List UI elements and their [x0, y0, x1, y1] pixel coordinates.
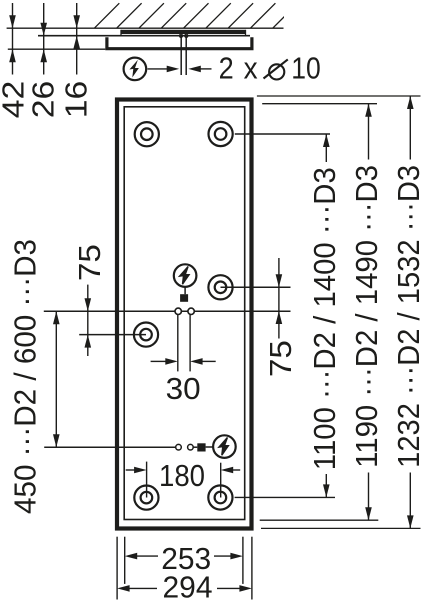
svg-text:75: 75	[263, 340, 298, 377]
svg-text:2: 2	[219, 51, 234, 86]
svg-text:294: 294	[163, 569, 213, 600]
svg-text:16: 16	[59, 81, 94, 119]
svg-text:26: 26	[26, 81, 61, 119]
svg-text:75: 75	[72, 244, 107, 281]
svg-text:30: 30	[166, 371, 201, 406]
svg-text:10: 10	[291, 51, 321, 86]
svg-text:1190 ···D2 / 1490 ···D3: 1190 ···D2 / 1490 ···D3	[349, 165, 384, 468]
svg-text:450 ···D2 / 600 ···D3: 450 ···D2 / 600 ···D3	[7, 239, 42, 514]
svg-text:1232 ···D2 / 1532 ···D3: 1232 ···D2 / 1532 ···D3	[391, 165, 423, 468]
svg-text:1100 ···D2 / 1400 ···D3: 1100 ···D2 / 1400 ···D3	[307, 167, 342, 470]
svg-text:x: x	[244, 51, 258, 86]
svg-text:180: 180	[159, 458, 205, 493]
